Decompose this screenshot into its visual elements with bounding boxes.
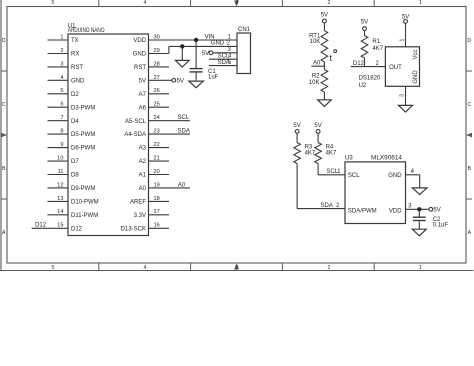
svg-text:RST: RST [134,65,146,71]
svg-text:13: 13 [57,196,63,202]
svg-text:4K7: 4K7 [305,150,316,156]
svg-text:D12: D12 [35,223,47,229]
U1 pin 16 (D13-SCK) wire + labels [121,223,169,233]
U3 pin 4 GND wire [406,169,420,188]
net label SCL + pin 1 of U3 [327,169,342,175]
svg-text:5V: 5V [177,78,184,84]
CN1 pin 3 5V [202,47,237,57]
svg-text:GND: GND [133,52,147,58]
U1 pin 5 (D2) wire + labels [48,88,80,98]
svg-text:SDA/PWM: SDA/PWM [348,209,377,215]
resistor R2 10K [309,70,328,93]
svg-text:C: C [467,102,471,108]
U1 pin 29 (GND) wire + labels [133,48,169,58]
U1 pin 8 (D5-PWM) wire + labels [48,129,96,139]
svg-text:7: 7 [60,115,63,121]
svg-text:D: D [2,38,6,44]
svg-text:AREF: AREF [130,200,146,206]
svg-text:D8: D8 [71,173,79,179]
svg-text:R1: R1 [372,39,380,45]
wire 5V to RT1 [323,23,325,31]
svg-text:5V: 5V [139,78,146,84]
CN1 pin 4 SCL wire [209,54,237,60]
net label SDA + pin 2 of U3 [321,203,341,209]
svg-text:1: 1 [60,34,63,40]
svg-text:2: 2 [328,0,331,6]
svg-text:MLX90614: MLX90614 [371,156,403,162]
svg-text:12: 12 [57,182,63,188]
svg-text:B: B [468,166,472,172]
U1 pin 6 (D3-PWM) wire + labels [48,102,96,112]
U1 pin 21 (A2) wire + labels [139,156,169,166]
svg-text:5: 5 [52,265,55,271]
wire R1 to D12 net [364,58,366,67]
U1 pin 7 (D4) wire + labels [48,115,80,125]
svg-text:A5-SCL: A5-SCL [125,119,147,125]
svg-text:10: 10 [57,156,63,162]
svg-text:A0: A0 [178,182,186,188]
svg-text:5V: 5V [293,123,300,129]
U1 pin 22 (A3) wire + labels [139,142,169,152]
svg-text:SDA: SDA [321,203,333,209]
U1 pin 23 (A4-SDA) wire + labels [124,129,190,139]
power 5V above R1 [361,20,368,31]
net label D12 on U1 pin 15 [35,223,47,229]
svg-text:4K7: 4K7 [326,150,337,156]
power 5V above R3 [293,123,300,133]
ground symbol on GND net [176,46,190,67]
svg-text:A2: A2 [139,159,147,165]
svg-text:A7: A7 [139,92,147,98]
U1 pin 12 (D9-PWM) wire + labels [48,182,96,192]
ground below U2 [399,105,413,112]
svg-text:A1: A1 [139,173,147,179]
svg-text:3: 3 [228,47,232,53]
svg-text:4: 4 [144,265,147,271]
svg-text:A0: A0 [139,186,147,192]
svg-text:D11-PWM: D11-PWM [71,213,98,219]
wire R3 to SDA net [297,164,345,209]
net label A0 on U1 pin 19 [178,182,186,188]
svg-text:CN1: CN1 [238,27,251,33]
svg-text:R4: R4 [326,144,334,150]
CN1 pin 1 VIN [205,34,232,40]
node A0 stub + label [311,61,324,67]
ground below U3 pin 4 [412,188,427,195]
svg-text:DS1820: DS1820 [359,75,381,81]
power 5V above R4 [314,123,321,133]
U1 pin 28 (RST) wire + labels [134,61,169,71]
svg-text:0.1uF: 0.1uF [433,223,449,229]
svg-text:D12: D12 [71,226,83,232]
junction on GND net [180,44,184,48]
svg-text:3.3V: 3.3V [134,213,146,219]
svg-text:A3: A3 [139,146,147,152]
svg-text:GND: GND [211,41,225,47]
svg-text:U3: U3 [345,156,353,162]
power 5V on U3 VDD [429,207,441,213]
svg-text:10K: 10K [309,80,320,86]
U1 pin 26 (A7) wire + labels [139,88,169,98]
ground below C2 [412,221,426,236]
svg-text:RST: RST [71,65,83,71]
svg-text:A: A [468,230,472,236]
svg-text:D3-PWM: D3-PWM [71,105,95,111]
IC U3 MLX90614 body [345,156,406,224]
U1 pin 15 (D12) wire + labels [32,223,83,233]
capacitor C2 0.1uF [413,217,448,229]
IC U1 ARDUINO NANO body [68,23,149,235]
svg-text:3: 3 [236,0,239,6]
svg-text:t: t [330,53,333,63]
svg-text:D10-PWM: D10-PWM [71,200,99,206]
svg-text:8: 8 [60,129,63,135]
svg-text:A6: A6 [139,105,147,111]
svg-text:10K: 10K [310,39,321,45]
svg-text:1: 1 [399,38,405,41]
svg-text:SDA: SDA [178,129,190,135]
svg-text:15: 15 [57,223,63,229]
svg-text:SCL: SCL [178,115,190,121]
svg-text:U2: U2 [359,83,367,89]
svg-text:A4-SDA: A4-SDA [124,132,146,138]
U1 pin 13 (D10-PWM) wire + labels [48,196,99,206]
U3 pin 3 VDD wire [406,204,429,210]
svg-text:D9-PWM: D9-PWM [71,186,95,192]
U1 pin 14 (D11-PWM) wire + labels [48,209,99,219]
svg-text:A: A [2,230,6,236]
wire 5V to R1 [364,31,366,36]
U1 pin 11 (D8) wire + labels [48,169,80,179]
wire junction down to C2 [418,209,420,217]
svg-text:11: 11 [58,169,64,175]
svg-text:VDD: VDD [389,209,402,215]
U1 pin 1 (TX) wire + labels [48,34,79,44]
wire VIN junction down to C1 [195,40,197,69]
U1 pin 4 (GND) wire + labels [48,75,86,85]
net wire D12 to U2 pin 2 [351,61,386,67]
svg-text:3: 3 [236,265,239,271]
svg-text:1: 1 [228,34,232,40]
U1 pin 2 (RX) wire + labels [48,48,80,58]
svg-text:B: B [2,166,6,172]
IC U2 DS1820 body [359,47,420,89]
svg-text:OUT: OUT [389,65,402,71]
resistor R4 4K7 [315,143,337,164]
svg-text:5V: 5V [433,207,440,213]
svg-text:TX: TX [71,38,79,44]
U1 pin 27 (5V) wire + labels [139,75,172,85]
ground below R2 [318,92,332,106]
svg-text:Vcc: Vcc [413,49,419,59]
U1 pin 20 (A1) wire + labels [139,169,169,179]
svg-text:R2: R2 [312,74,320,80]
U1 pin 24 (A5-SCL) wire + labels [125,115,190,125]
svg-text:RX: RX [71,52,79,58]
svg-text:SCL: SCL [348,173,360,179]
power 5V above RT1 [321,13,328,23]
U2 pin 3 GND wire [399,86,405,105]
U1 pin 10 (D7) wire + labels [48,156,80,166]
svg-text:3: 3 [399,94,405,97]
svg-text:9: 9 [60,142,63,148]
junction on VDD net [417,207,421,211]
svg-text:D: D [467,38,471,44]
wire 5V to R4 [317,133,319,142]
CN1 pin 2 GND wire [169,41,237,54]
svg-text:GND: GND [71,78,85,84]
ground below C1 [189,72,204,88]
svg-text:5V: 5V [314,123,321,129]
U1 pin 9 (D6-PWM) wire + labels [48,142,96,152]
svg-text:R3: R3 [305,144,313,150]
svg-text:4: 4 [411,169,415,175]
svg-text:4: 4 [144,0,147,6]
svg-text:2: 2 [60,48,63,54]
capacitor C1 1uF [190,69,219,81]
svg-text:D5-PWM: D5-PWM [71,132,95,138]
junction on VIN net [194,38,198,42]
svg-text:ARDUINO NANO: ARDUINO NANO [68,28,105,34]
U1 pin 19 (A0) wire + labels [139,182,190,192]
svg-text:5V: 5V [321,13,328,19]
svg-text:D13-SCK: D13-SCK [121,226,146,232]
connector CN1 body [237,27,251,74]
power 5V above U2 [402,14,409,23]
net label SCL on U1 pin 24 [178,115,190,121]
U1 pin 18 (AREF) wire + labels [130,196,169,206]
svg-text:1: 1 [419,265,422,271]
svg-text:2: 2 [227,41,231,47]
thermistor RT1 10K [309,31,337,63]
svg-text:4K7: 4K7 [372,46,383,52]
svg-text:GND: GND [388,173,402,179]
svg-text:5V: 5V [361,20,368,26]
svg-text:3: 3 [408,204,412,210]
svg-text:VIN: VIN [205,34,215,40]
resistor R3 4K7 [294,143,316,164]
svg-text:2: 2 [328,265,331,271]
U1 pin 30 (VDD) wire + labels [133,34,237,44]
svg-text:D2: D2 [71,92,79,98]
svg-text:5: 5 [60,88,63,94]
svg-text:D7: D7 [71,159,79,165]
wire 5V to R3 [296,133,298,142]
svg-text:GND: GND [413,70,419,84]
svg-text:VDD: VDD [133,38,146,44]
svg-text:1uF: 1uF [208,75,219,81]
svg-text:1: 1 [419,0,422,6]
svg-text:D6-PWM: D6-PWM [71,146,95,152]
svg-text:6: 6 [60,102,63,108]
CN1 pin 5 SDA wire [209,60,237,66]
svg-text:5V: 5V [202,51,209,57]
net label SDA on U1 pin 23 [178,129,190,135]
svg-text:3: 3 [60,61,63,67]
power 5V on U1 pin 27 [172,78,184,84]
U2 pin 1 Vcc wire [399,23,405,47]
svg-text:C: C [2,102,6,108]
wire R4 to SCL net [318,164,345,175]
svg-text:4: 4 [60,75,63,81]
svg-text:D12: D12 [353,61,365,67]
svg-text:14: 14 [57,209,63,215]
svg-text:A0: A0 [313,61,321,67]
U1 pin 17 (3.3V) wire + labels [134,209,169,219]
resistor R1 4K7 [361,36,384,59]
wire RT1 to node A0 [323,62,325,70]
U1 pin 25 (A6) wire + labels [139,102,169,112]
svg-text:5: 5 [52,0,55,6]
svg-text:D4: D4 [71,119,79,125]
U1 pin 3 (RST) wire + labels [48,61,84,71]
